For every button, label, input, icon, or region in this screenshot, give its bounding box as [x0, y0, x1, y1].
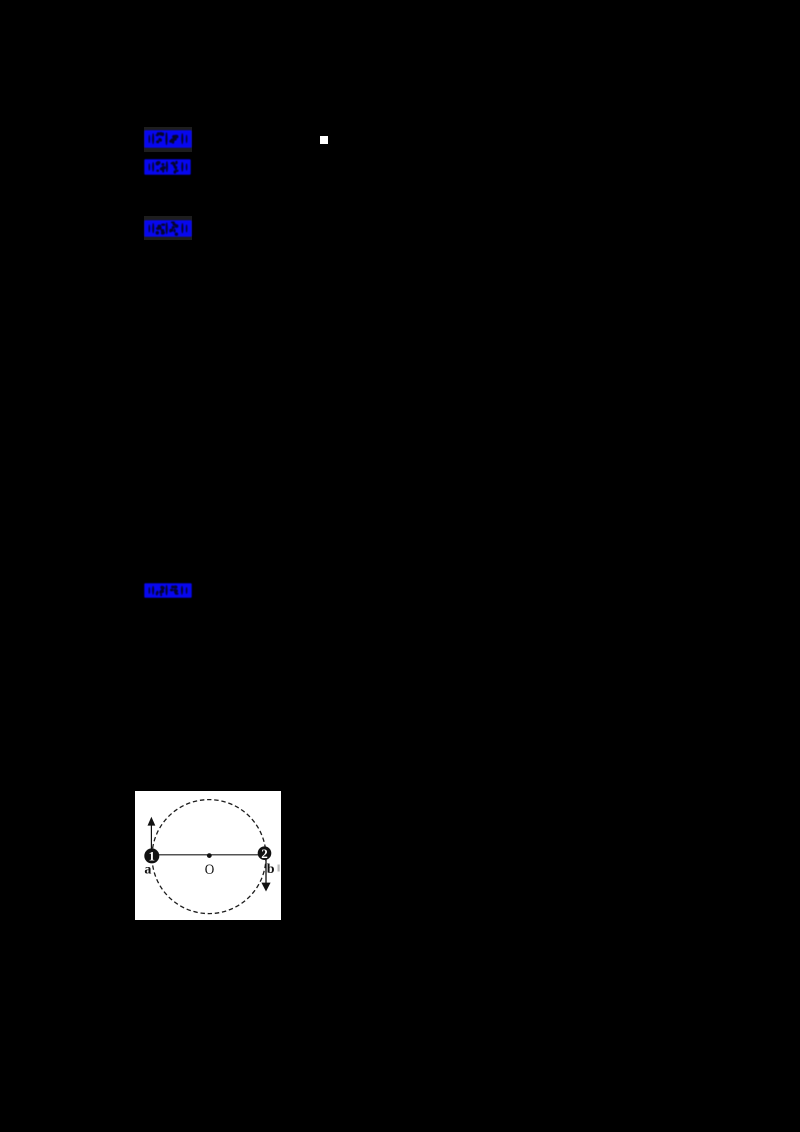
- svg-text:a: a: [144, 862, 151, 877]
- svg-text:b: b: [267, 862, 275, 877]
- svg-text:O: O: [205, 861, 215, 878]
- svg-text:2: 2: [261, 846, 268, 861]
- svg-text:1: 1: [149, 848, 156, 863]
